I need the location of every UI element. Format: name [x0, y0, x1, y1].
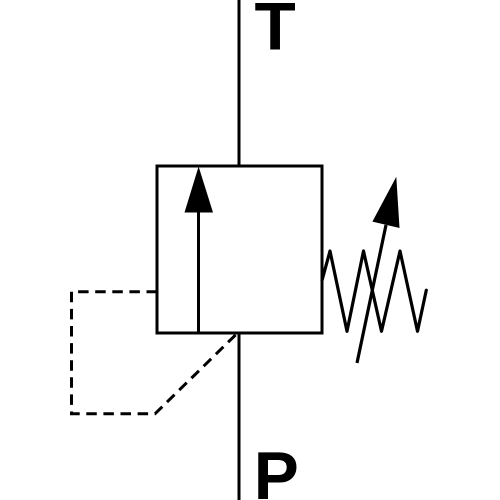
spring	[322, 251, 426, 331]
wire: P port line	[238, 333, 241, 500]
flow arrow head	[185, 167, 214, 213]
svg-text:T: T	[255, 0, 296, 65]
adjustment arrow shaft	[357, 225, 386, 363]
svg-text:P: P	[254, 439, 299, 500]
adjustment arrow head	[372, 177, 399, 228]
wire: T port line	[238, 0, 241, 166]
valve body (square envelope)	[157, 166, 322, 333]
pilot line (dashed)	[72, 292, 237, 414]
flow arrow shaft inside valve	[197, 210, 200, 332]
